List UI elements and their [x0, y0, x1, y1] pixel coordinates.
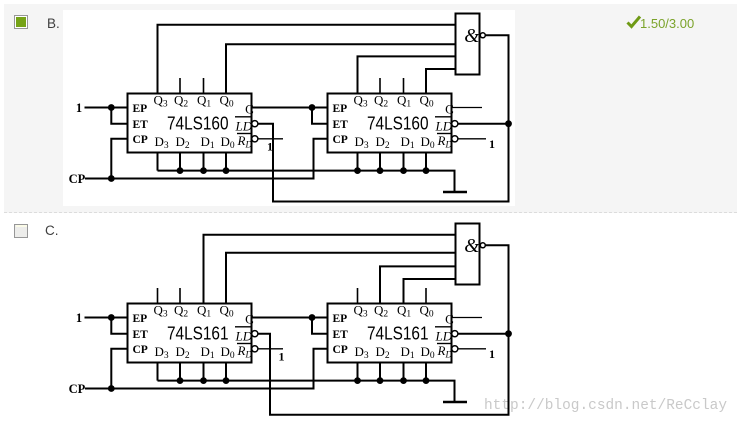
svg-text:74LS161: 74LS161: [367, 324, 429, 344]
svg-text:1: 1: [279, 349, 285, 363]
svg-text:ET: ET: [333, 329, 349, 341]
svg-text:EP: EP: [133, 103, 148, 115]
svg-text:LD: LD: [435, 119, 453, 134]
svg-text:1: 1: [267, 139, 273, 153]
svg-text:C: C: [245, 102, 254, 117]
svg-text:CP: CP: [333, 344, 348, 356]
svg-text:CP: CP: [133, 344, 148, 356]
svg-text:&: &: [464, 26, 480, 47]
svg-text:ET: ET: [133, 119, 149, 131]
svg-text:74LS160: 74LS160: [367, 114, 429, 134]
svg-text:LD: LD: [435, 329, 453, 344]
svg-text:ET: ET: [133, 329, 149, 341]
svg-text:EP: EP: [333, 103, 348, 115]
svg-text:http://blog.csdn.net/ReCclay: http://blog.csdn.net/ReCclay: [484, 397, 727, 414]
svg-text:&: &: [464, 236, 480, 257]
svg-text:1: 1: [489, 347, 495, 361]
svg-text:LD: LD: [235, 119, 253, 134]
svg-text:74LS160: 74LS160: [167, 114, 229, 134]
svg-text:EP: EP: [133, 313, 148, 325]
svg-text:CP: CP: [69, 172, 86, 186]
svg-text:1: 1: [489, 137, 495, 151]
svg-text:74LS161: 74LS161: [167, 324, 229, 344]
svg-text:CP: CP: [333, 134, 348, 146]
svg-text:1: 1: [76, 311, 82, 325]
svg-text:C: C: [245, 312, 254, 327]
svg-text:CP: CP: [133, 134, 148, 146]
svg-text:ET: ET: [333, 119, 349, 131]
svg-text:CP: CP: [69, 382, 86, 396]
svg-text:C: C: [445, 102, 454, 117]
svg-text:C: C: [445, 312, 454, 327]
svg-text:LD: LD: [235, 329, 253, 344]
svg-text:1: 1: [76, 101, 82, 115]
svg-text:EP: EP: [333, 313, 348, 325]
